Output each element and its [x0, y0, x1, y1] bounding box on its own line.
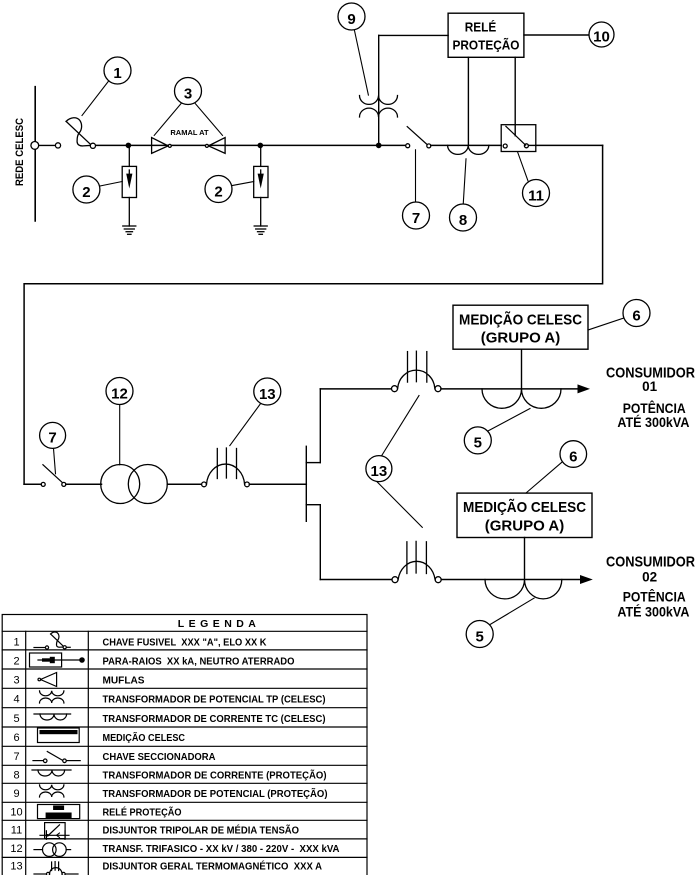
svg-text:POTÊNCIA: POTÊNCIA: [623, 590, 686, 605]
svg-text:MEDIÇÃO CELESC: MEDIÇÃO CELESC: [463, 498, 586, 516]
svg-text:12: 12: [10, 843, 22, 855]
svg-text:7: 7: [13, 751, 19, 763]
svg-text:01: 01: [642, 379, 658, 394]
svg-text:PROTEÇÃO: PROTEÇÃO: [453, 38, 520, 53]
svg-text:POTÊNCIA: POTÊNCIA: [623, 401, 686, 416]
svg-text:3: 3: [184, 85, 192, 102]
svg-text:7: 7: [48, 430, 56, 447]
svg-text:9: 9: [347, 11, 355, 28]
svg-text:12: 12: [111, 385, 128, 402]
svg-text:6: 6: [569, 448, 577, 465]
svg-text:6: 6: [632, 307, 640, 324]
svg-text:(GRUPO A): (GRUPO A): [481, 330, 560, 347]
svg-text:CONSUMIDOR: CONSUMIDOR: [606, 554, 695, 571]
svg-text:13: 13: [371, 463, 388, 480]
svg-text:CHAVE FUSIVEL XXX "A", ELO XX: CHAVE FUSIVEL XXX "A", ELO XX K: [103, 637, 267, 648]
svg-text:RELÉ: RELÉ: [465, 20, 497, 35]
svg-text:(GRUPO A): (GRUPO A): [485, 518, 564, 535]
svg-text:13: 13: [10, 861, 22, 873]
svg-text:11: 11: [11, 825, 22, 837]
svg-text:4: 4: [13, 694, 19, 706]
svg-text:DISJUNTOR TRIPOLAR DE MÉDIA TE: DISJUNTOR TRIPOLAR DE MÉDIA TENSÃO: [103, 825, 300, 837]
svg-text:02: 02: [642, 569, 657, 584]
svg-text:5: 5: [474, 435, 482, 452]
svg-text:2: 2: [214, 183, 222, 200]
svg-text:REDE CELESC: REDE CELESC: [14, 118, 26, 186]
svg-text:10: 10: [593, 28, 610, 45]
svg-text:MEDIÇÃO CELESC: MEDIÇÃO CELESC: [103, 733, 186, 744]
svg-text:13: 13: [259, 386, 276, 403]
svg-text:TRANSFORMADOR DE CORRENTE TC (: TRANSFORMADOR DE CORRENTE TC (CELESC): [103, 714, 326, 725]
svg-text:MUFLAS: MUFLAS: [103, 676, 145, 687]
svg-text:5: 5: [476, 628, 484, 645]
svg-text:RELÉ PROTEÇÃO: RELÉ PROTEÇÃO: [103, 806, 182, 818]
svg-text:MEDIÇÃO CELESC: MEDIÇÃO CELESC: [459, 311, 582, 329]
svg-text:10: 10: [10, 806, 22, 818]
svg-text:8: 8: [13, 770, 19, 782]
svg-text:8: 8: [459, 212, 467, 229]
svg-text:TRANSFORMADOR DE CORRENTE (PRO: TRANSFORMADOR DE CORRENTE (PROTEÇÃO): [103, 771, 327, 782]
svg-text:6: 6: [13, 732, 19, 744]
svg-text:ATÉ 300kVA: ATÉ 300kVA: [617, 605, 689, 620]
svg-text:2: 2: [82, 184, 90, 201]
svg-text:DISJUNTOR GERAL TERMOMAGNÉTICO: DISJUNTOR GERAL TERMOMAGNÉTICO XXX A: [103, 861, 323, 873]
svg-text:2: 2: [13, 655, 19, 667]
svg-text:ATÉ 300kVA: ATÉ 300kVA: [617, 415, 689, 430]
svg-text:9: 9: [13, 788, 19, 800]
svg-text:CHAVE SECCIONADORA: CHAVE SECCIONADORA: [103, 752, 216, 763]
svg-text:TRANSF. TRIFASICO - XX kV / 38: TRANSF. TRIFASICO - XX kV / 380 - 220V -…: [103, 844, 340, 855]
svg-text:RAMAL AT: RAMAL AT: [170, 128, 209, 137]
svg-text:TRANSFORMADOR DE POTENCIAL TP: TRANSFORMADOR DE POTENCIAL TP (CELESC): [103, 695, 326, 706]
svg-text:5: 5: [13, 713, 19, 725]
svg-text:1: 1: [113, 65, 121, 82]
svg-text:PARA-RAIOS XX kA, NEUTRO ATER: PARA-RAIOS XX kA, NEUTRO ATERRADO: [103, 656, 295, 667]
svg-text:7: 7: [412, 210, 420, 227]
svg-text:TRANSFORMADOR DE POTENCIAL (PR: TRANSFORMADOR DE POTENCIAL (PROTEÇÃO): [103, 789, 328, 800]
svg-text:1: 1: [13, 636, 19, 648]
svg-text:3: 3: [13, 675, 19, 687]
svg-text:11: 11: [528, 187, 544, 204]
